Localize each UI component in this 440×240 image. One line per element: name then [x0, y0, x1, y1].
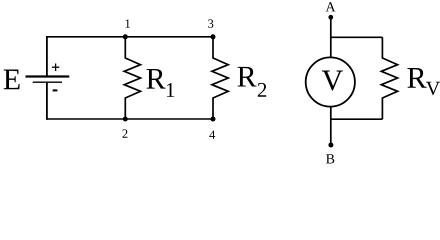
label R1 R	[146, 69, 165, 89]
node 4 label	[209, 131, 215, 139]
label R1 sub 1	[167, 83, 174, 97]
node 2 label	[122, 129, 127, 137]
resistor RV (leads + zigzag)	[381, 37, 397, 119]
label E	[4, 70, 20, 90]
node 1 junction dot	[123, 34, 128, 39]
node 2 junction dot	[123, 117, 128, 122]
voltmeter body circle	[306, 57, 355, 106]
label R2 R	[237, 67, 256, 87]
battery plus polarity mark	[52, 64, 59, 72]
label RV sub V	[426, 82, 440, 95]
wire: left side, top rail down to battery positive plate	[46, 36, 48, 76]
node 3 junction dot	[211, 34, 216, 39]
voltmeter V letter	[322, 71, 343, 91]
wire: top rail of left circuit	[47, 36, 213, 38]
node A label	[326, 2, 336, 11]
label R2 sub 2	[258, 83, 266, 97]
wire: bottom rail of left circuit	[47, 118, 213, 120]
node A terminal dot	[328, 15, 333, 20]
node 4 junction dot	[211, 117, 216, 122]
resistor R1 (leads + zigzag between node 1 and node 2)	[124, 37, 140, 119]
label RV R	[407, 68, 426, 88]
wire: bottom jumper from voltmeter stem to RV branch	[331, 118, 383, 120]
node 3 label	[208, 19, 213, 27]
node B terminal dot	[328, 143, 333, 148]
wire: top jumper over to RV branch	[331, 36, 383, 38]
wire: voltmeter circle down to node B	[330, 107, 332, 146]
node B label	[326, 154, 334, 163]
battery E positive (long) plate	[26, 75, 70, 77]
resistor R2 (leads + zigzag between node 3 and node 4)	[212, 37, 228, 119]
battery E negative (short) plate	[33, 81, 62, 83]
wire: battery negative plate down to bottom rail	[46, 82, 48, 120]
battery minus polarity mark	[53, 89, 58, 91]
node 1 label	[126, 19, 130, 27]
wire: node A down to voltmeter circle	[330, 17, 332, 57]
